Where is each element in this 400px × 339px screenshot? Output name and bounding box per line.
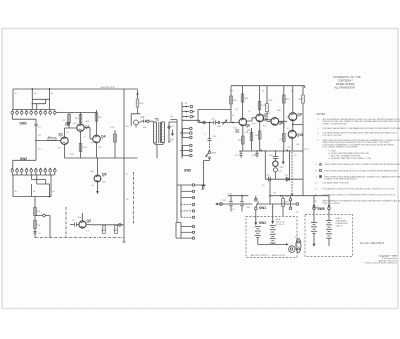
connector J3 [289, 246, 295, 253]
svg-text:VOLTAGE AT CONTACTS OF BATTERY: VOLTAGE AT CONTACTS OF BATTERY SUPPLY WI… [323, 194, 397, 197]
wire battery bottom link [258, 243, 288, 245]
resistor R20 [230, 96, 238, 117]
svg-text:Printed in United States of Am: Printed in United States of America [365, 262, 398, 265]
svg-text:6 CELLS: 6 CELLS [276, 224, 285, 226]
capacitor C14 electrolytic [227, 194, 236, 212]
wire Q1 base feed [35, 140, 61, 142]
resistor R22 [238, 136, 244, 144]
resistor R7 [79, 144, 87, 152]
resistor R14 [168, 116, 175, 143]
transistor Q10 [288, 130, 303, 150]
potentiometer wiper [223, 120, 227, 125]
resistor R13 [136, 99, 144, 107]
node contact C [289, 179, 303, 209]
wire drop 3b [32, 184, 37, 197]
switch SW2 wafer B contacts [11, 168, 56, 175]
sprinkle labels amp [231, 91, 300, 158]
node input contact [203, 121, 206, 124]
wire drop 1b [51, 175, 55, 197]
note text box1 [276, 219, 286, 226]
wire vertical bus [34, 197, 36, 238]
wire arrow tap [169, 122, 177, 135]
wire inner links wafer A [32, 99, 50, 109]
svg-text:SW2: SW2 [20, 122, 27, 126]
capacitor C5 [140, 118, 146, 123]
svg-text:Q5: Q5 [102, 173, 107, 177]
svg-text:THIS SYMBOL INDICATES A PLUG C: THIS SYMBOL INDICATES A PLUG CONTACT VIE… [324, 169, 398, 172]
svg-text:+C14: +C14 [227, 194, 233, 196]
switch SW2 wafer C contacts [181, 184, 205, 240]
wire left column C1 branch [12, 114, 41, 160]
wire amp input line [198, 122, 239, 124]
wire B+ top rail [231, 86, 305, 88]
ground [202, 181, 206, 189]
svg-text:THIS SYMBOL INDICATES A SOCKET: THIS SYMBOL INDICATES A SOCKET CONTACT V… [324, 163, 400, 166]
svg-text:SW2: SW2 [184, 168, 191, 172]
node power contact [220, 203, 223, 206]
wire link [35, 216, 50, 238]
svg-text:Q4: Q4 [101, 135, 106, 139]
resistor R25 [266, 86, 273, 118]
wire emitter rail [65, 157, 138, 159]
resistor R23 [258, 86, 266, 114]
resistor R5 [68, 113, 74, 123]
wire drop 3a [49, 88, 55, 109]
connector P1 [295, 237, 301, 253]
wire Q3-Q4 link [84, 128, 93, 139]
resistor R27 [280, 128, 286, 151]
svg-text:Q9: Q9 [297, 113, 302, 117]
wire ground rail amp [239, 150, 303, 152]
transistor Q2 [79, 213, 91, 228]
enclosure dashed box 2 [305, 215, 353, 257]
connector group 3 [180, 144, 192, 157]
resistor R8 [95, 113, 102, 121]
svg-text:FOLLOWING, VIEWED CLOCKWISE:: FOLLOWING, VIEWED CLOCKWISE: [323, 147, 359, 149]
switch SW4 [206, 151, 217, 159]
node feed contacts [303, 196, 330, 222]
capacitor C11 [233, 128, 239, 133]
wire Q1 collector to Q3 base [65, 115, 77, 129]
svg-text:T1: T1 [155, 117, 159, 121]
svg-text:VOLTAGE AT CONTACTS OF RECORDI: VOLTAGE AT CONTACTS OF RECORDING LEVEL C… [323, 187, 396, 190]
svg-text:Q2: Q2 [87, 219, 92, 223]
capacitor C19 stub [255, 150, 258, 157]
resistor R28 [299, 86, 305, 122]
wire branch lower [209, 141, 211, 151]
switch SW1 [255, 196, 267, 211]
node T1 input contact [147, 120, 154, 122]
svg-text:BATTERY SUPPLY — SEE NOTE 10: BATTERY SUPPLY — SEE NOTE 10 [251, 254, 286, 257]
svg-text:Q10: Q10 [297, 133, 303, 137]
svg-text:PUT. ALL POSITIVE.: PUT. ALL POSITIVE. [323, 134, 343, 137]
node branch junction [209, 122, 211, 124]
wire to ground [204, 159, 210, 181]
wire bottom link wafer B [13, 196, 51, 198]
svg-text:d. STANDBY (BATTERY DISCONNEC: d. STANDBY (BATTERY DISCONNECT, OFF) [329, 157, 372, 160]
transistor Q1 [58, 128, 68, 158]
sprinkle labels power [222, 171, 299, 214]
arrow power input [216, 203, 220, 205]
resistor R24 [255, 131, 261, 139]
resistor R21 [241, 86, 249, 118]
wire input loop [198, 86, 231, 123]
transformer T1 [154, 122, 165, 158]
node junction dot [232, 122, 234, 124]
resistor R9 [110, 127, 116, 158]
wire Q6-Q7 coupling [247, 118, 256, 121]
svg-text:J: J [41, 213, 42, 215]
wire wafer C bus [176, 185, 181, 238]
capacitor C4 [70, 220, 79, 227]
resistor R29 [282, 196, 290, 217]
wire top feed rail [13, 87, 138, 89]
wire tap arrow [282, 150, 284, 163]
wire long vertical bus [123, 89, 126, 242]
svg-text:SPK: SPK [280, 167, 285, 169]
svg-text:NOTES:: NOTES: [317, 113, 327, 116]
svg-text:10K: 10K [86, 121, 90, 123]
svg-text:CONNECTION THAT IS AN INDEX.: CONNECTION THAT IS AN INDEX. [324, 178, 358, 181]
node junction B [269, 179, 271, 205]
node output junction [118, 223, 121, 226]
wire drop 1a [13, 89, 18, 110]
svg-text:VOLTAGE VALUES ARE TO BE MEASU: VOLTAGE VALUES ARE TO BE MEASURED WITH A… [323, 127, 400, 130]
svg-text:Q3: Q3 [85, 125, 90, 129]
capacitor C20 stub [240, 151, 243, 158]
battery B1 [253, 227, 261, 245]
capacitor C16 [204, 134, 217, 141]
svg-text:11.: 11. [315, 201, 318, 203]
svg-text:PNP TYPE UNITS.: PNP TYPE UNITS. [323, 203, 341, 205]
transistor Q7 [256, 113, 268, 151]
svg-text:SW2: SW2 [259, 221, 266, 225]
wire upper link row [228, 195, 293, 197]
svg-text:1.5V: 1.5V [304, 149, 309, 151]
resistor R19 [217, 121, 222, 128]
svg-text:Q1: Q1 [59, 133, 64, 137]
wire mech link dash-dot [133, 172, 135, 224]
speaker SP1 [269, 161, 284, 179]
wire feed corner [136, 90, 139, 99]
svg-text:100K (NOTE 4): 100K (NOTE 4) [101, 87, 116, 89]
enclosure dashed box [246, 216, 297, 257]
capacitor C10 [211, 119, 216, 125]
svg-text:47K: 47K [73, 123, 77, 125]
wire power row [220, 203, 296, 205]
wire output loop [260, 149, 303, 179]
svg-text:10.: 10. [315, 195, 318, 197]
wire step to wafer B [13, 160, 36, 168]
transistor Q5 [90, 158, 107, 193]
transistor Q8 [267, 118, 283, 126]
connector E1 group 1 [182, 102, 195, 159]
wire Q2 output [90, 224, 124, 226]
wire B+ feed preamp [56, 112, 97, 115]
node junction [41, 213, 45, 217]
resistor R11 [101, 226, 106, 234]
wire Q7-Q8 coupling [264, 119, 272, 121]
wire right rail down [302, 125, 304, 180]
resistor R4 [34, 221, 41, 229]
capacitor C15 electrolytic [240, 194, 244, 212]
wire drop 2a [31, 88, 37, 109]
wire Q8 link [279, 121, 287, 128]
node contact D [291, 152, 299, 205]
sprinkle labels preamp [66, 121, 174, 233]
resistor R2 [48, 137, 56, 141]
transistor Q9 [289, 86, 302, 131]
wire inner links wafer B [32, 175, 50, 197]
svg-text:5.6K: 5.6K [244, 132, 249, 134]
resistor R6 [75, 115, 82, 123]
wire Q4 collector column [96, 110, 98, 135]
resistor R3 [34, 208, 41, 216]
svg-text:◂ 3M ▸: ◂ 3M ▸ [313, 207, 320, 210]
svg-text:ALL TRANSISTOR: ALL TRANSISTOR [334, 86, 355, 89]
wire shield vertical dash-dot [65, 207, 67, 238]
resistor R26 [283, 86, 291, 128]
svg-text:CELLS: CELLS [336, 226, 343, 228]
capacitor C2 [34, 232, 42, 236]
switch SW2 wafer A contacts [11, 110, 56, 116]
wire shield dash-dot [35, 237, 124, 239]
capacitor C12 [273, 150, 279, 161]
svg-text:SW1: SW1 [259, 206, 266, 210]
connector group 2 [180, 127, 192, 139]
battery B4 [326, 221, 332, 247]
svg-text:VOLTAGES ARE POSITIVE.: VOLTAGES ARE POSITIVE. [323, 181, 350, 184]
wire output node [292, 122, 303, 126]
svg-text:Form No. 1380-1456-M: Form No. 1380-1456-M [360, 242, 384, 245]
wire assembly bus [171, 120, 178, 222]
resistor R12 [113, 226, 118, 234]
battery B3 [309, 223, 318, 246]
note text box2 [336, 218, 350, 228]
microphone jack M1 [131, 108, 145, 128]
svg-text:10K: 10K [245, 98, 249, 100]
battery B2 [270, 225, 279, 243]
capacitor C3 [62, 120, 70, 126]
resistor R35 [247, 128, 253, 151]
wire assembly output [182, 120, 203, 122]
svg-text:a. PLAY: a. PLAY [329, 149, 337, 152]
wire battery feeds [255, 204, 274, 225]
transistor Q6 [239, 118, 250, 151]
capacitor C13 [265, 175, 271, 182]
svg-text:IN MFD. UNLESS NOTED.: IN MFD. UNLESS NOTED. [323, 123, 348, 125]
wire drop 2b [13, 175, 18, 197]
transistor Q4 [93, 135, 106, 159]
svg-text:2.2K: 2.2K [83, 147, 88, 149]
wire branch down [209, 123, 211, 139]
transistor Q3 [77, 112, 90, 158]
diode D1 [285, 175, 289, 181]
svg-text:Q6: Q6 [246, 124, 251, 128]
svg-text:4.7K: 4.7K [110, 127, 115, 129]
svg-text:SW: SW [247, 207, 250, 209]
